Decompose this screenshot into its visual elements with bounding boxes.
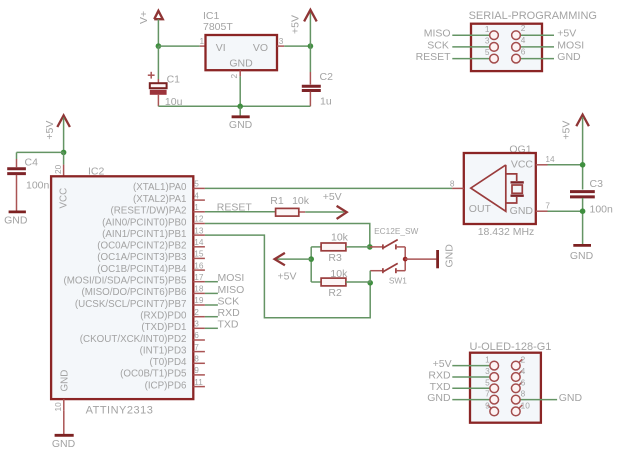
net label RXD <box>218 307 241 319</box>
wire pin 14 to +5V node <box>548 164 583 166</box>
svg-text:(OC0B/T1)PD5: (OC0B/T1)PD5 <box>120 369 187 380</box>
net label GND serial <box>557 51 581 63</box>
IC2 pin 20 stub <box>53 164 64 176</box>
svg-text:3: 3 <box>279 36 284 46</box>
IC2 pin 12 (AIN0/PCINT0)PB0 <box>102 214 205 229</box>
pad OLED pin 4 <box>511 366 525 381</box>
svg-text:10k: 10k <box>292 195 310 207</box>
wire R3 right lead <box>346 246 370 248</box>
svg-text:100n: 100n <box>26 180 50 192</box>
svg-text:RESET: RESET <box>416 51 452 63</box>
wire R3 left lead <box>311 246 321 248</box>
IC2 pin 4 (XTAL2)PA1 <box>133 190 205 205</box>
QG1 crystal symbol <box>506 174 524 203</box>
IC2 pin 19 (UCSK/SCL/PCINT7)PB7 <box>75 295 205 310</box>
wire stub net RXD <box>205 316 218 318</box>
node VCC junction <box>61 150 67 156</box>
svg-text:18: 18 <box>194 284 204 294</box>
svg-text:(XTAL1)PA0: (XTAL1)PA0 <box>133 182 187 193</box>
wire R2 left lead <box>311 281 321 283</box>
node switch A junction <box>367 244 373 250</box>
svg-text:1u: 1u <box>320 95 332 107</box>
svg-text:4: 4 <box>521 366 526 376</box>
wire switch common to ground <box>405 258 436 260</box>
svg-text:10k: 10k <box>331 232 349 244</box>
svg-text:SCK: SCK <box>427 39 449 51</box>
QG1 pin label OUT <box>469 203 492 215</box>
node osc VCC junction <box>580 162 586 168</box>
svg-text:5: 5 <box>485 377 490 387</box>
svg-text:(OC1B/PCINT4)PB4: (OC1B/PCINT4)PB4 <box>97 264 187 275</box>
svg-text:MISO: MISO <box>424 28 451 40</box>
svg-text:GND: GND <box>444 244 456 268</box>
resistor R3 <box>321 243 346 251</box>
svg-text:1: 1 <box>485 355 490 365</box>
net label GND OLED left <box>427 392 451 404</box>
svg-text:(MISO/DO/PCINT6)PB6: (MISO/DO/PCINT6)PB6 <box>81 287 187 298</box>
svg-text:+5V: +5V <box>433 358 452 370</box>
svg-text:(CKOUT/XCK/INT0)PD2: (CKOUT/XCK/INT0)PD2 <box>80 334 187 345</box>
svg-text:R1: R1 <box>270 195 284 207</box>
svg-text:(AIN1/PCINT1)PB1: (AIN1/PCINT1)PB1 <box>102 229 186 240</box>
IC2 pin 3 (TXD)PD1 <box>141 319 205 334</box>
wire stub net SCK <box>205 304 218 306</box>
svg-text:5: 5 <box>194 179 199 189</box>
svg-text:7: 7 <box>485 389 490 399</box>
pad OLED pin 3 <box>485 366 498 381</box>
net label RESET <box>217 201 253 213</box>
IC2 pin label GND rotated <box>60 370 71 392</box>
pad pin 5 <box>485 47 498 63</box>
wire pin 7 to ground node <box>548 210 583 212</box>
node switch B junction <box>367 280 373 286</box>
IC2 pin 15 (OC1A/PCINT3)PB3 <box>97 249 205 264</box>
wire stub net TXD <box>205 327 218 329</box>
wire ground rail under IC1 <box>158 105 310 107</box>
IC2 value label ATTINY2313 <box>86 404 154 416</box>
R3 labels <box>328 232 348 264</box>
svg-text:MOSI: MOSI <box>218 272 245 284</box>
svg-text:+5V: +5V <box>278 270 297 282</box>
svg-text:GND: GND <box>559 392 583 404</box>
svg-text:(RESET/DW)PA2: (RESET/DW)PA2 <box>110 206 186 217</box>
svg-text:14: 14 <box>194 237 204 247</box>
node +5V junction top <box>308 43 314 49</box>
svg-text:SERIAL-PROGRAMMING: SERIAL-PROGRAMMING <box>469 10 597 22</box>
svg-text:C1: C1 <box>167 74 181 86</box>
wire R1 to +5V arrow <box>305 211 344 213</box>
svg-text:9: 9 <box>194 365 199 375</box>
svg-text:12: 12 <box>194 214 204 224</box>
wire pin 6 to GND <box>520 58 554 60</box>
svg-text:19: 19 <box>194 295 204 305</box>
IC1 pin label GND <box>229 58 253 70</box>
svg-text:6: 6 <box>521 47 526 57</box>
IC2 pin 2 (RXD)PD0 <box>140 307 205 322</box>
svg-text:2: 2 <box>521 23 526 33</box>
wire node to C2 <box>309 46 311 84</box>
svg-text:6: 6 <box>194 330 199 340</box>
supply symbol +5V right arrow <box>323 191 347 219</box>
switch SW1 contact B <box>370 259 405 273</box>
wire +5V to VCC node <box>63 118 65 153</box>
svg-text:(AIN0/PCINT0)PB0: (AIN0/PCINT0)PB0 <box>102 217 187 228</box>
wire switch B to node B <box>369 271 371 283</box>
connector SERIAL-PROGRAMMING body <box>471 24 542 71</box>
svg-text:(UCSK/SCL/PCINT7)PB7: (UCSK/SCL/PCINT7)PB7 <box>75 299 187 310</box>
wire up to +5V symbol <box>309 12 311 46</box>
svg-text:OUT: OUT <box>469 203 492 215</box>
svg-text:RXD: RXD <box>428 370 451 382</box>
C2 labels <box>320 71 334 108</box>
svg-text:8: 8 <box>521 389 526 399</box>
QG1 amplifier triangle <box>471 165 506 211</box>
svg-text:C4: C4 <box>25 157 39 169</box>
svg-text:15: 15 <box>194 249 204 259</box>
net label GND OLED right <box>559 392 583 404</box>
svg-text:9: 9 <box>485 400 490 410</box>
IC2 pin 9 (OC0B/T1)PD5 <box>120 365 205 380</box>
IC2 pin 18 (MISO/DO/PCINT6)PB6 <box>81 284 204 299</box>
C4 labels <box>25 157 50 192</box>
svg-text:2: 2 <box>229 74 239 79</box>
resistor R2 <box>321 278 346 286</box>
svg-text:V+: V+ <box>138 11 150 24</box>
IC2 pin 5 (XTAL1)PA0 <box>133 179 205 194</box>
svg-text:SCK: SCK <box>218 295 240 307</box>
supply symbol +5V right <box>561 115 589 140</box>
net label TXD OLED <box>430 381 451 393</box>
svg-text:5: 5 <box>485 47 490 57</box>
IC1 pin 2 stub <box>229 70 240 78</box>
svg-text:U-OLED-128-G1: U-OLED-128-G1 <box>470 341 552 353</box>
svg-text:+5V: +5V <box>44 121 56 140</box>
capacitor C4 <box>7 152 26 211</box>
svg-text:(MOSI/DI/SDA/PCINT5)PB5: (MOSI/DI/SDA/PCINT5)PB5 <box>63 276 187 287</box>
supply symbol +5V top <box>289 10 316 34</box>
net label MISO <box>218 284 245 296</box>
node ground rail junction <box>237 104 243 110</box>
svg-text:VI: VI <box>216 42 226 54</box>
svg-text:1: 1 <box>485 24 490 34</box>
C3 labels <box>590 178 614 215</box>
IC2 pin 7 (INT1)PD3 <box>140 342 205 357</box>
wire TXD to OLED pin 5 <box>452 387 490 389</box>
QG1 pin label VCC <box>511 159 534 171</box>
pad pin 6 <box>512 47 526 63</box>
switch SW1 contact A <box>370 240 405 260</box>
svg-text:GND: GND <box>570 250 594 262</box>
svg-text:GND: GND <box>510 205 534 217</box>
supply symbol +5V left <box>44 115 70 139</box>
svg-text:(ICP)PD6: (ICP)PD6 <box>145 380 187 391</box>
svg-text:1: 1 <box>200 36 205 46</box>
svg-text:+5V: +5V <box>561 121 573 140</box>
svg-text:GND: GND <box>229 119 253 131</box>
net label MOSI <box>218 272 245 284</box>
svg-text:MOSI: MOSI <box>557 39 584 51</box>
capacitor C3 <box>570 192 595 245</box>
IC2 pin 13 (AIN1/PCINT1)PB1 <box>102 225 205 240</box>
IC2 pin label VCC rotated <box>59 188 70 209</box>
IC2 pin 17 (MOSI/DI/SDA/PCINT5)PB5 <box>63 272 204 287</box>
capacitor C2 <box>302 86 321 106</box>
svg-text:(RXD)PD0: (RXD)PD0 <box>140 311 187 322</box>
svg-text:7: 7 <box>194 342 199 352</box>
net label MISO <box>424 28 451 40</box>
resistor R1 <box>276 208 306 216</box>
pad OLED pin 8 <box>511 389 525 404</box>
svg-text:+5V: +5V <box>323 191 342 203</box>
svg-text:GND: GND <box>60 370 71 392</box>
svg-text:(OC1A/PCINT3)PB3: (OC1A/PCINT3)PB3 <box>97 252 187 263</box>
wire VIN down to C1 <box>157 46 159 83</box>
wire to +5V left arrow <box>277 258 311 260</box>
supply symbol +5V left arrow <box>275 253 297 282</box>
svg-text:R3: R3 <box>328 252 342 264</box>
supply symbol V+ <box>138 11 163 24</box>
wire IC1 GND to rail <box>239 76 241 106</box>
svg-text:4: 4 <box>521 35 526 45</box>
voltage regulator IC1 7805T body <box>206 35 278 70</box>
R1 labels <box>270 195 309 207</box>
svg-text:EC12E_SW: EC12E_SW <box>374 226 418 236</box>
svg-text:10k: 10k <box>330 268 348 280</box>
net label +5V OLED <box>433 358 452 370</box>
svg-text:14: 14 <box>545 154 555 164</box>
svg-text:TXD: TXD <box>218 319 239 331</box>
net label TXD <box>218 319 239 331</box>
wire IC2 pin 10 to ground <box>63 411 65 435</box>
wire RESET to pin 5 <box>452 58 489 60</box>
wire SCK to pin 3 <box>452 46 489 48</box>
wire node to C4 <box>17 151 64 153</box>
svg-text:ATTINY2313: ATTINY2313 <box>86 404 154 416</box>
svg-text:8: 8 <box>194 354 199 364</box>
svg-text:7805T: 7805T <box>203 21 233 33</box>
IC2 pin 6 (CKOUT/XCK/INT0)PD2 <box>80 330 205 345</box>
svg-text:C2: C2 <box>320 71 334 83</box>
pad OLED pin 7 <box>485 389 498 404</box>
svg-text:GND: GND <box>427 392 451 404</box>
oscillator QG1 name <box>509 144 531 156</box>
ground symbol GND under C3 <box>570 245 594 261</box>
wire MISO to pin 1 <box>452 34 489 36</box>
svg-text:2: 2 <box>194 307 199 317</box>
svg-text:4: 4 <box>194 190 199 200</box>
ground symbol GND rotated at switch <box>438 244 456 269</box>
IC2 name label <box>88 165 105 177</box>
svg-text:+5V: +5V <box>557 28 576 40</box>
connector SERIAL-PROGRAMMING title <box>469 10 597 22</box>
wire stub net MISO <box>205 292 218 294</box>
microcontroller IC2 body <box>51 176 193 399</box>
wire IC1 out to node +5V <box>284 45 310 47</box>
svg-text:17: 17 <box>194 272 204 282</box>
svg-text:RESET: RESET <box>217 201 253 213</box>
IC1 pin 3 stub <box>277 36 284 46</box>
pad pin 2 <box>512 23 526 39</box>
ground symbol GND under IC2 <box>52 435 76 450</box>
QG1 pin 8 stub <box>450 178 464 188</box>
svg-text:SW1: SW1 <box>389 275 407 285</box>
pad pin 3 <box>485 36 498 52</box>
wire RESET net <box>205 211 276 213</box>
pad OLED pin 2 <box>511 355 525 370</box>
svg-text:GND: GND <box>4 215 28 227</box>
svg-text:2: 2 <box>521 355 526 365</box>
wire PB1 loop to switch node B <box>205 235 370 318</box>
svg-text:MISO: MISO <box>218 284 245 296</box>
svg-text:6: 6 <box>521 377 526 387</box>
svg-text:13: 13 <box>194 225 204 235</box>
pad OLED pin 1 <box>485 355 498 370</box>
connector U-OLED body <box>470 353 541 423</box>
svg-text:TXD: TXD <box>430 381 451 393</box>
svg-text:11: 11 <box>194 377 203 387</box>
pad pin 1 <box>485 24 498 40</box>
pad OLED pin 6 <box>511 377 525 392</box>
net label SCK <box>218 295 240 307</box>
oscillator QG1 body <box>464 153 536 224</box>
QG1 pin label GND <box>510 205 534 217</box>
node VIN junction <box>156 43 162 49</box>
svg-text:GND: GND <box>229 58 253 70</box>
svg-text:20: 20 <box>53 164 63 174</box>
svg-text:IC2: IC2 <box>88 165 105 177</box>
svg-text:GND: GND <box>52 438 76 450</box>
svg-text:(OC0A/PCINT2)PB2: (OC0A/PCINT2)PB2 <box>97 241 186 252</box>
svg-text:VCC: VCC <box>511 159 534 171</box>
wire pin 2 to +5V <box>520 34 554 36</box>
wire PB0 to switch node <box>205 224 370 247</box>
wire +5V to OLED pin 1 <box>452 365 490 367</box>
IC1 pin label VO <box>253 42 268 54</box>
IC2 pin 20 wire <box>63 152 65 164</box>
svg-text:(T0)PD4: (T0)PD4 <box>149 357 187 368</box>
svg-text:(INT1)PD3: (INT1)PD3 <box>140 345 187 356</box>
svg-text:16: 16 <box>194 260 204 270</box>
C1 labels <box>165 74 183 108</box>
wire R2 right lead <box>346 281 370 283</box>
IC2 pin 11 (ICP)PD6 <box>145 377 205 392</box>
net label MOSI serial <box>557 39 584 51</box>
svg-text:C3: C3 <box>590 178 604 190</box>
IC1 pin label VI <box>216 42 226 54</box>
svg-text:VCC: VCC <box>59 188 70 209</box>
QG1 pin 7 stub <box>536 201 551 212</box>
IC2 pin 1 (RESET/DW)PA2 <box>110 202 204 217</box>
svg-text:RXD: RXD <box>218 307 241 319</box>
svg-text:GND: GND <box>557 51 581 63</box>
ground symbol GND under C4 <box>4 212 28 227</box>
svg-text:10: 10 <box>53 402 63 412</box>
pad pin 4 <box>512 35 526 51</box>
ground symbol GND under IC1 <box>229 106 253 131</box>
node switch common junction <box>403 257 408 262</box>
IC2 pin 14 (OC0A/PCINT2)PB2 <box>97 237 205 252</box>
IC2 pin 10 stub <box>53 399 64 411</box>
node osc GND junction <box>580 208 586 214</box>
svg-text:100n: 100n <box>590 204 614 216</box>
svg-text:(XTAL2)PA1: (XTAL2)PA1 <box>133 194 187 205</box>
wire XTAL1 to oscillator OUT <box>205 187 452 189</box>
wire GND to OLED pin 7 <box>452 399 490 401</box>
wire RXD to OLED pin 3 <box>452 376 490 378</box>
net label RESET serial <box>416 51 452 63</box>
IC2 pin 16 (OC1B/PCINT4)PB4 <box>97 260 205 275</box>
svg-text:1: 1 <box>194 202 199 212</box>
svg-text:3: 3 <box>194 319 199 329</box>
switch SW1 EC12E name <box>374 226 418 285</box>
QG1 value 18.432 MHz <box>478 226 535 238</box>
svg-text:10: 10 <box>521 400 531 410</box>
node +5V tap junction <box>308 256 314 262</box>
svg-text:VO: VO <box>253 42 268 54</box>
svg-text:3: 3 <box>485 366 490 376</box>
connector U-OLED-128-G1 title <box>470 341 552 353</box>
capacitor C1 polarized <box>148 72 167 107</box>
svg-text:7: 7 <box>545 201 550 211</box>
wire VIN to IC1 pin 1 <box>158 45 199 47</box>
svg-text:(TXD)PD1: (TXD)PD1 <box>141 322 186 333</box>
wire OLED pin 8 to GND <box>520 399 557 401</box>
wire pin 4 to MOSI <box>520 46 554 48</box>
wire +5V vertical R3 R2 <box>310 247 312 282</box>
QG1 pin 14 stub <box>536 154 555 165</box>
svg-text:8: 8 <box>450 178 455 188</box>
R2 labels <box>328 268 348 299</box>
net label +5V serial <box>557 28 576 40</box>
pad OLED pin 9 <box>485 400 498 415</box>
svg-text:+5V: +5V <box>289 15 301 34</box>
IC2 pin 8 (T0)PD4 <box>149 354 204 369</box>
svg-text:18.432 MHz: 18.432 MHz <box>478 226 535 238</box>
IC1 pin 1 stub <box>200 36 206 46</box>
pad OLED pin 5 <box>485 377 498 392</box>
wire V+ to node VIN <box>157 19 159 46</box>
svg-text:R2: R2 <box>328 287 342 299</box>
IC1 name labels <box>203 10 233 33</box>
wire +5V down to C3 <box>582 117 584 190</box>
net label SCK <box>427 39 449 51</box>
svg-text:3: 3 <box>485 36 490 46</box>
wire stub net MOSI <box>205 281 218 283</box>
pad OLED pin 10 <box>511 400 530 415</box>
net label RXD OLED <box>428 370 451 382</box>
